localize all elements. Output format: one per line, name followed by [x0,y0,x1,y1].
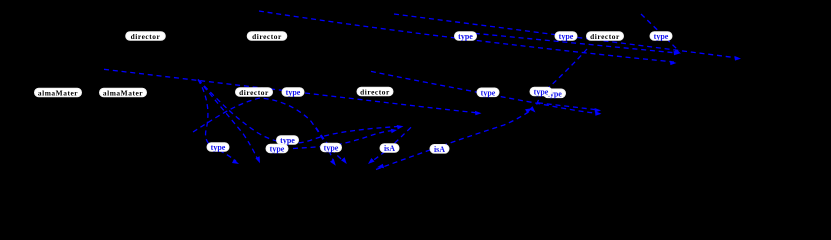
arrowhead B1 end [232,159,239,164]
node label isA 20 [430,145,449,154]
node label type 17 [266,144,288,153]
svg-text:isA: isA [384,144,395,153]
node label type 13 [530,87,552,96]
wire edge B1 [198,80,236,162]
svg-text:almaMater: almaMater [38,89,78,98]
node label type 14 (behind) [544,89,566,98]
svg-text:type: type [654,32,669,41]
node label type 16 [277,136,299,145]
wire edge B7 [371,127,411,162]
arrowhead T2 end [734,56,741,61]
svg-text:director: director [590,32,620,41]
wire edge E3 steep [641,14,679,51]
arrowhead E5 end [595,111,602,116]
wire edge B3a [198,80,398,144]
wire edge B2 [198,80,257,159]
arrowhead T3 end [674,51,681,56]
svg-text:type: type [324,144,339,153]
node label isA 19 [380,144,399,153]
wire edge T2 [394,14,738,58]
node label type 6 [650,32,672,41]
wire edge E5 [371,71,597,113]
arrowhead E4 end [475,111,482,116]
wire edge B10 [316,128,345,162]
node label type 10 [282,88,304,97]
node label director 1 [126,32,166,41]
wire edge E7 [376,111,531,170]
node label type 15 [207,143,229,152]
wire edge E9 [538,103,597,110]
node label type 4 [555,32,577,41]
node label type 18 [321,143,342,152]
node label almaMater 7 [35,88,82,97]
arrowhead B8 end [391,129,397,133]
wire edge E4 [104,69,477,113]
wire edge B8 [293,131,392,149]
wire edge E8 [536,49,587,108]
arrowhead B9 end [330,159,336,166]
node label type 12 [477,88,499,97]
arrowhead B7 end [368,158,375,164]
arrowhead E3 end [674,49,681,54]
wire edge T3 [466,33,677,54]
svg-text:type: type [211,143,226,152]
svg-text:almaMater: almaMater [103,89,143,98]
svg-text:director: director [252,32,282,41]
wire edge B9 [193,98,333,160]
arrowhead B11 end [377,164,384,168]
arrowhead B10 end [341,157,347,164]
arrowhead T1 end [670,61,677,66]
node label director 5 [587,32,624,41]
svg-text:type: type [559,32,574,41]
svg-text:type: type [458,32,473,41]
svg-text:type: type [481,88,496,97]
arrowhead E7 end [525,108,532,113]
node label almaMater 8 [100,88,147,97]
node label director 11 [357,87,393,96]
wire edge T1 [259,11,674,62]
arrowhead E9 end [595,108,601,113]
svg-text:isA: isA [434,145,445,154]
svg-text:director: director [131,32,161,41]
svg-text:director: director [360,88,390,97]
svg-text:type: type [534,88,549,97]
svg-text:type: type [270,145,285,154]
svg-text:type: type [286,88,301,97]
arrowhead B3a end [397,125,404,130]
node label director 9 [236,88,273,97]
arrowhead B2 end [255,156,260,163]
arrowhead E8 end [529,106,535,112]
node label type 3 [455,32,477,41]
svg-text:director: director [239,88,269,97]
node label director 2 [247,32,287,41]
